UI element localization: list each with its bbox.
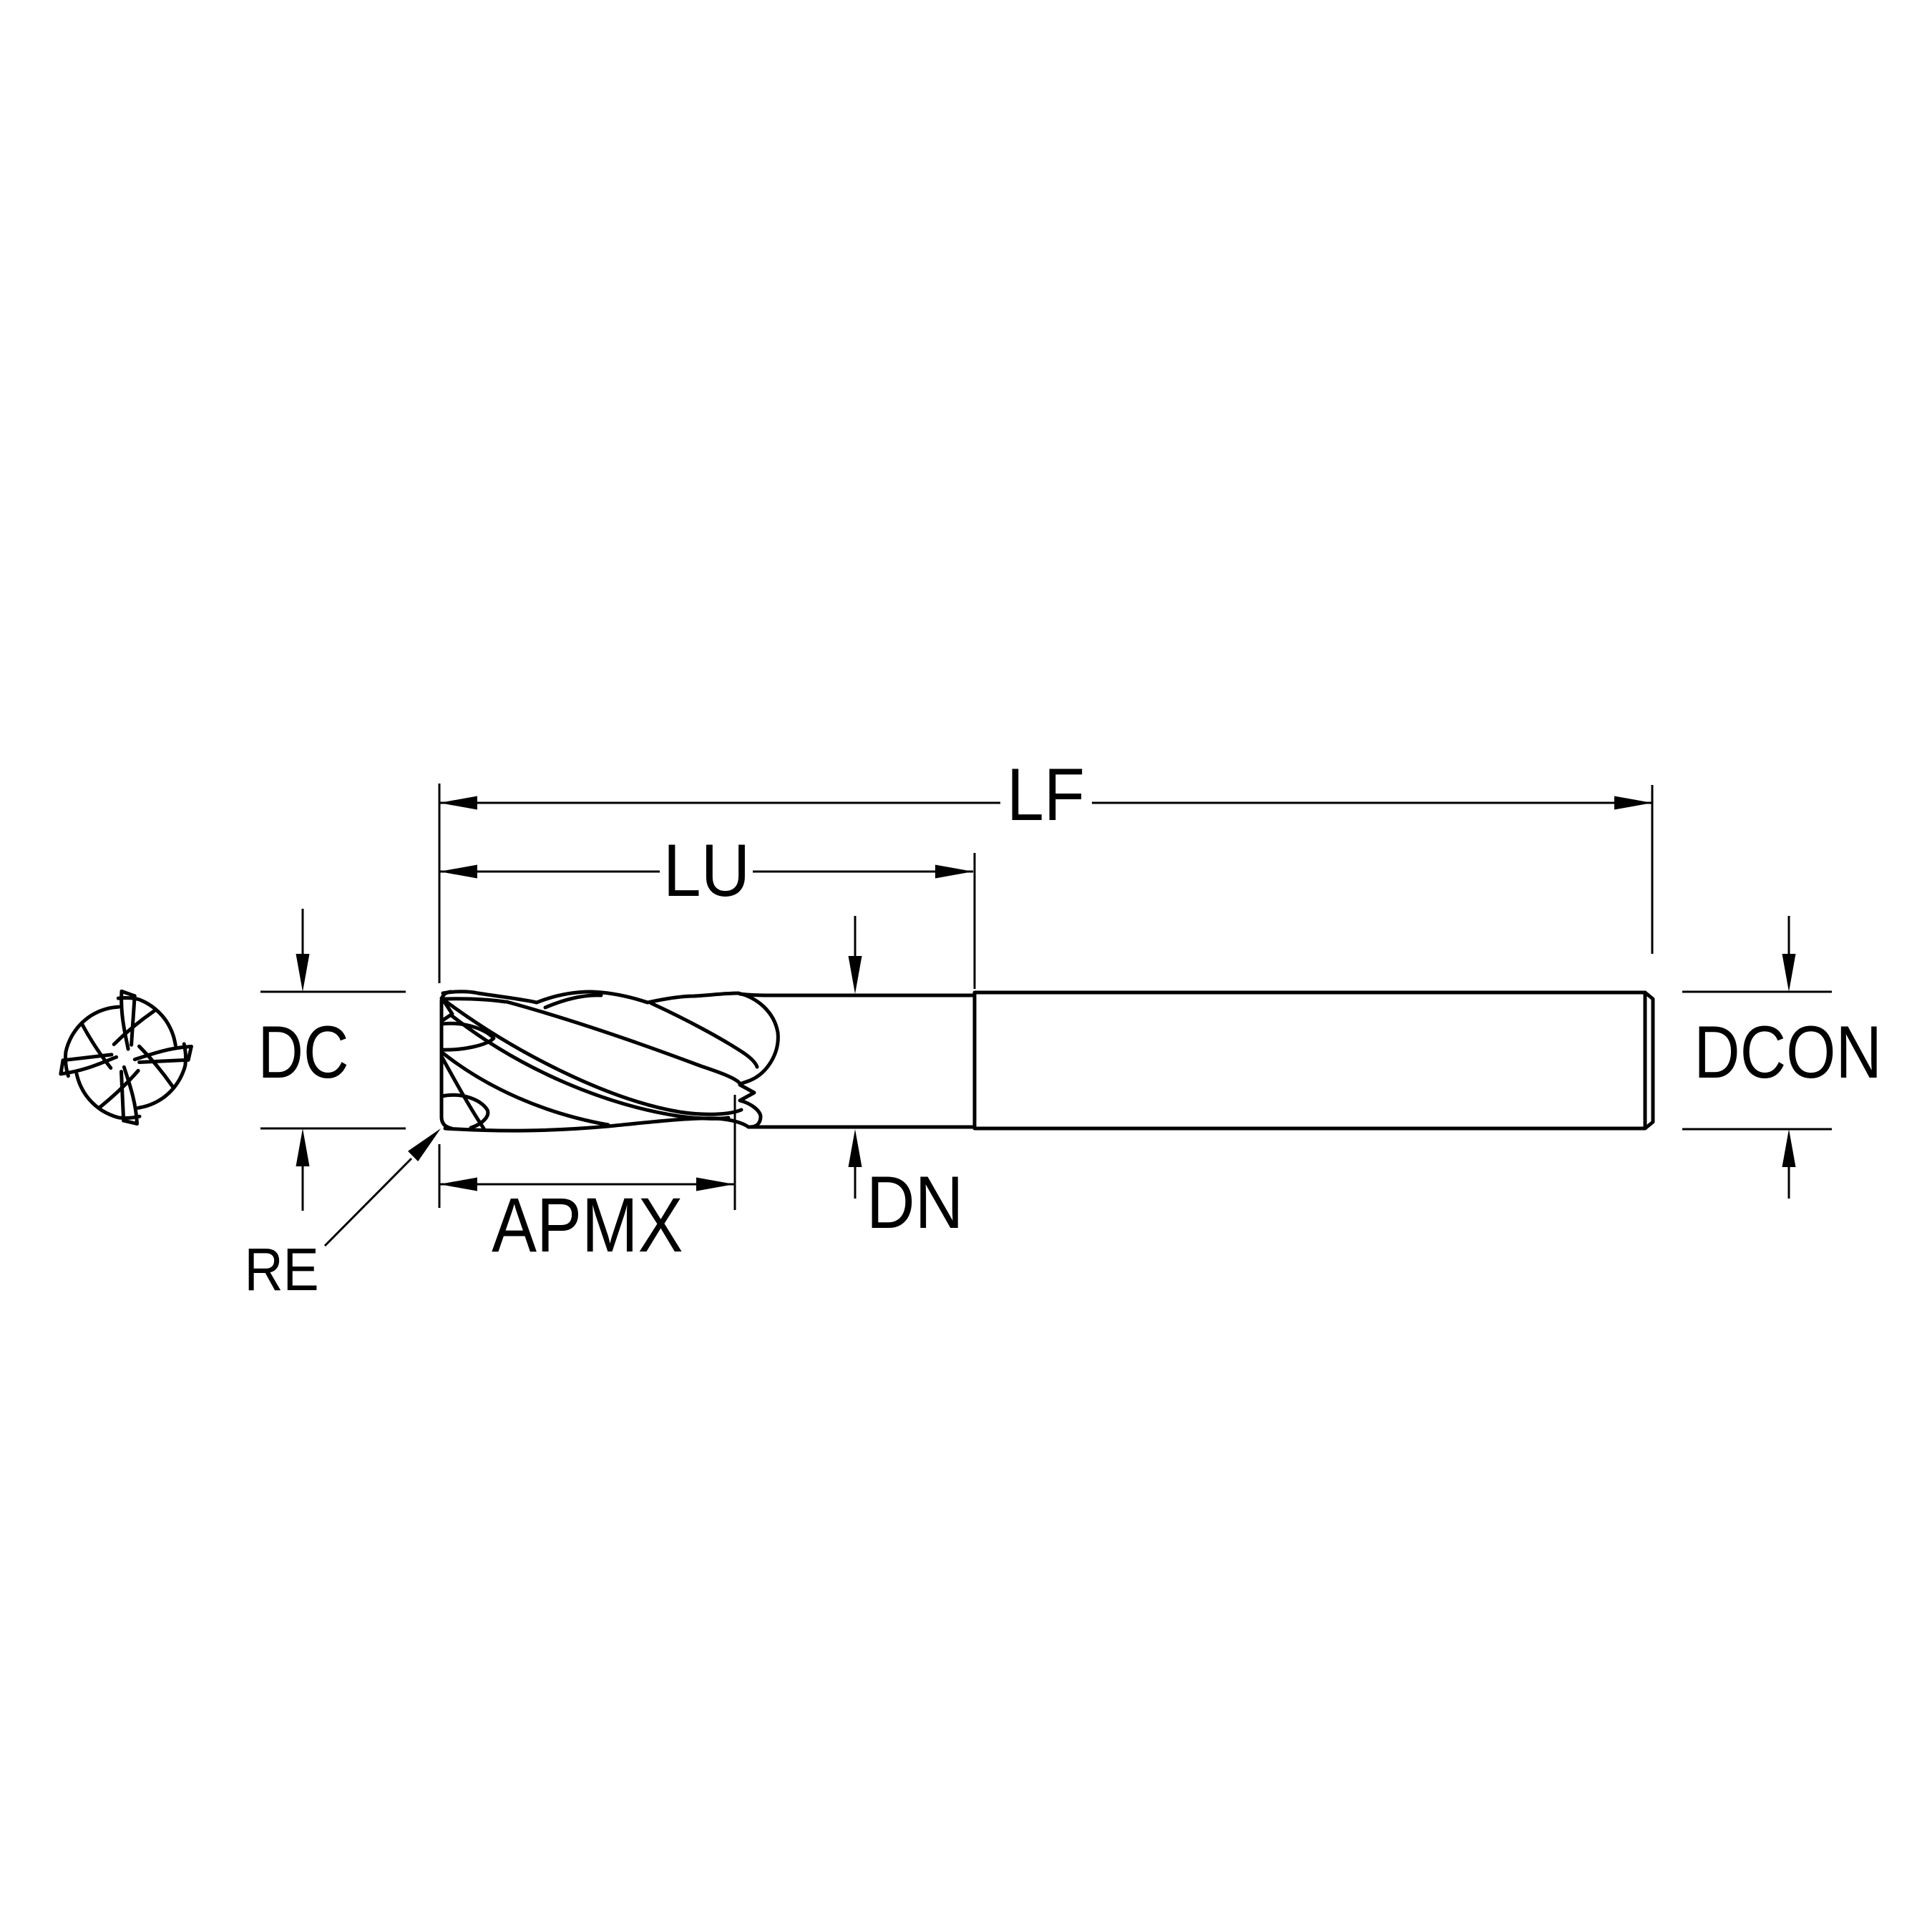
upper gash petal [441, 1023, 494, 1050]
RE leader arrowhead [408, 1128, 441, 1161]
LU right extension line [974, 853, 976, 989]
LF dimension line [439, 802, 1000, 804]
tooth tip land [122, 991, 135, 995]
head top silhouette with flute crests [443, 992, 738, 1002]
relief arc [138, 1044, 185, 1108]
flute valley line B [651, 1003, 757, 1067]
tooth tip land [124, 1121, 137, 1123]
DC top edge line [260, 991, 406, 993]
svg-text:RE: RE [245, 1236, 319, 1303]
shank chamfer edge [1644, 992, 1647, 1128]
DC arrow tails [302, 909, 304, 959]
DCON bottom edge line [1682, 1128, 1832, 1131]
svg-text:APMX: APMX [492, 1182, 683, 1268]
APMX arrowheads [439, 1178, 477, 1191]
relief arc [66, 1007, 119, 1076]
tooth tip land [61, 1060, 63, 1074]
gash line F2 [442, 1058, 484, 1128]
neck top line [740, 994, 974, 995]
DCON top edge line [1682, 991, 1832, 993]
DC bottom edge line [260, 1128, 406, 1130]
APMX dimension line [439, 1184, 734, 1186]
head bottom silhouette [445, 1118, 748, 1131]
svg-text:LF: LF [1007, 753, 1085, 836]
flute chord line [114, 1011, 154, 1045]
LF left extension line [439, 784, 441, 983]
relief arc [77, 1074, 140, 1118]
gash line F1 [442, 1053, 608, 1125]
LU dimension line [439, 871, 660, 873]
neck bottom line [748, 1126, 974, 1129]
tooth tip land [188, 1047, 191, 1060]
svg-text:DCON: DCON [1694, 1010, 1882, 1094]
LF right extension line [1652, 785, 1654, 954]
flute runout upper hook [738, 993, 778, 1127]
DCON arrow tails [1788, 916, 1790, 959]
tooth face line [124, 1067, 137, 1123]
flute slot line [122, 1072, 124, 1121]
shank body [975, 992, 1653, 1128]
flute slot line [140, 1060, 189, 1062]
main flute edge D1 [441, 998, 741, 1114]
tooth face line [122, 991, 128, 1049]
LF arrowheads [439, 796, 477, 810]
relief arc [118, 998, 175, 1045]
svg-text:DN: DN [867, 1160, 963, 1244]
crest companion line 1 [444, 999, 505, 1002]
crest companion line 2 [545, 995, 601, 1008]
main flute edge D2 [452, 1016, 728, 1118]
flute slot line [132, 996, 135, 1045]
APMX left extension line [439, 1144, 441, 1208]
flute chord line [100, 1070, 138, 1107]
svg-text:DC: DC [258, 1011, 348, 1093]
head left face [441, 992, 452, 1128]
DC arrowheads [296, 954, 310, 992]
DN arrow tails [854, 916, 857, 960]
flute valley line D0 [507, 1002, 740, 1083]
flute slot line [63, 1055, 112, 1060]
end tooth wedge [441, 1000, 452, 1021]
DCON arrowheads [1782, 954, 1796, 992]
RE leader line [325, 1158, 411, 1246]
tooth face line [135, 1047, 191, 1060]
tooth face line [61, 1057, 117, 1074]
svg-text:LU: LU [663, 829, 750, 912]
flute chord line [140, 1046, 173, 1086]
LU arrowheads [439, 865, 477, 879]
lower petal [441, 1095, 488, 1128]
DN arrowheads [849, 956, 862, 994]
APMX right extension line [734, 1095, 736, 1210]
flute chord line [82, 1024, 111, 1068]
